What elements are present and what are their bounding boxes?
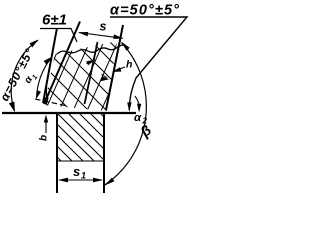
lower plate hatching: [14, 114, 148, 161]
label 6±1 with leader: [40, 12, 77, 43]
dashed reference line for alpha1: [35, 99, 67, 106]
svg-text:s: s: [100, 20, 107, 34]
lower plate left edge: [56, 114, 58, 194]
svg-text:b: b: [39, 135, 50, 141]
label alpha1: [22, 70, 39, 86]
lower plate hatch bottom boundary: [56, 160, 105, 162]
upper plate right face L3: [106, 25, 123, 110]
alpha1 arc with arrows: [36, 57, 52, 100]
dimension b: [39, 84, 50, 141]
groove axis line L1: [43, 28, 57, 103]
wire: top surface line of lower plate: [2, 112, 136, 114]
label alpha=50±5 top right with leader: [110, 3, 187, 113]
beta arc with arrows: [104, 42, 146, 186]
svg-text:s: s: [73, 164, 80, 179]
svg-text:1: 1: [81, 171, 86, 181]
alpha2 angle arrow: [135, 96, 139, 110]
svg-text:α: α: [134, 112, 142, 124]
small arrow below h: [101, 75, 110, 82]
svg-text:h: h: [126, 59, 132, 71]
weld cap wavy line: [57, 45, 125, 54]
groove left face L2: [44, 22, 80, 105]
lower plate right edge: [103, 114, 105, 194]
dimension h: [112, 59, 132, 73]
svg-text:6±1: 6±1: [42, 12, 67, 29]
inner bevel edge line: [85, 42, 98, 104]
left alpha arc with arrows: [9, 40, 39, 113]
dimension s1: [58, 164, 103, 182]
dimension s: [78, 20, 124, 39]
weld cross hatching: [20, 0, 140, 198]
svg-text:α=50°±5°: α=50°±5°: [110, 3, 180, 19]
h dimension left arrow: [86, 60, 95, 66]
